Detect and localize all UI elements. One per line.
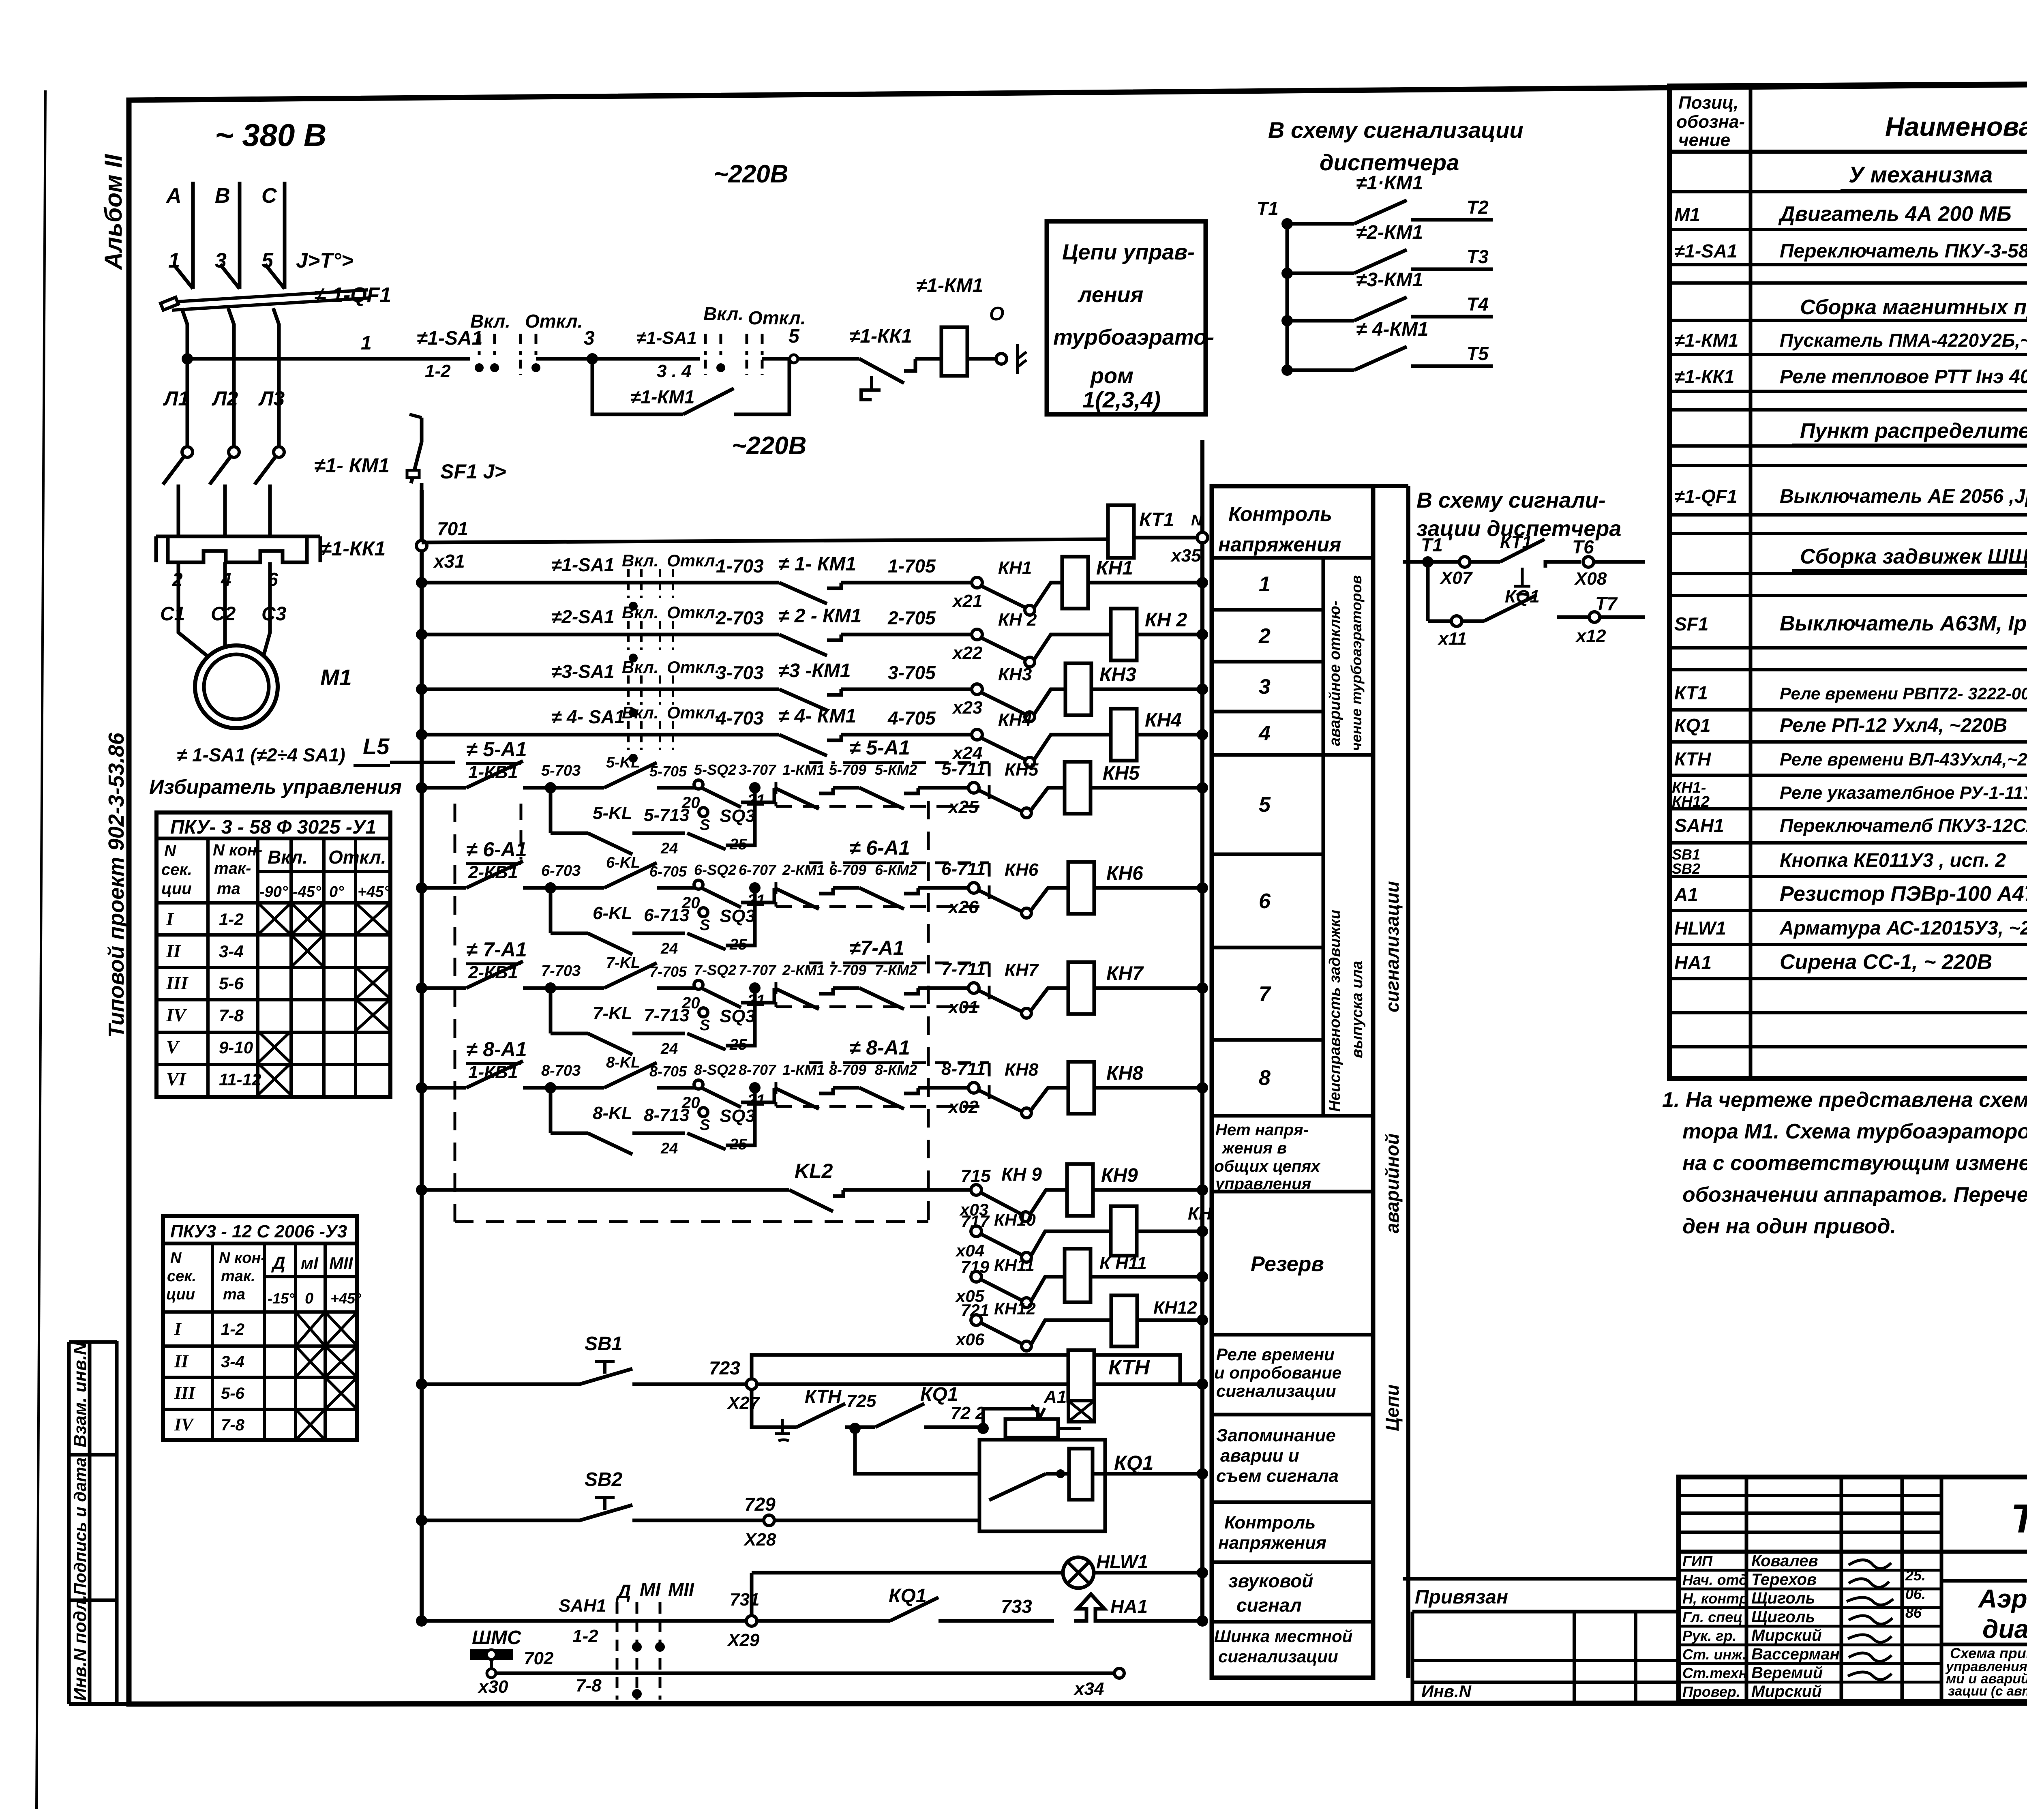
svg-text:Щиголь: Щиголь [1751,1608,1815,1626]
svg-text:ШМС: ШМС [472,1627,522,1649]
svg-text:L5: L5 [363,733,390,759]
svg-text:так.: так. [221,1268,255,1285]
svg-text:06.: 06. [1905,1586,1926,1602]
svg-text:≠1-КК1: ≠1-КК1 [849,326,912,347]
svg-text:6-703: 6-703 [541,862,581,879]
svg-text:КН3: КН3 [1099,664,1136,686]
svg-text:Неисправность задвижки: Неисправность задвижки [1326,910,1343,1112]
svg-text:Т1: Т1 [1421,534,1443,555]
svg-text:Реле времени: Реле времени [1216,1345,1335,1364]
svg-text:сигнал: сигнал [1236,1595,1302,1616]
svg-text:N: N [164,842,176,860]
svg-text:Л2: Л2 [212,387,238,410]
svg-text:6-KL: 6-KL [593,903,632,923]
svg-text:х31: х31 [433,551,465,572]
svg-text:≠1-КМ1: ≠1-КМ1 [630,386,694,407]
indicating relay coil КН8 [1068,1062,1208,1114]
label breaker 1-QF1 [314,283,391,307]
node 5 [789,326,800,363]
svg-text:2: 2 [172,569,183,590]
lamp HLW1 [1063,1551,1208,1588]
svg-text:Позиц,: Позиц, [1678,93,1739,113]
svg-text:Резерв: Резерв [1251,1252,1324,1276]
svg-text:та: та [217,880,240,898]
svg-text:3-4: 3-4 [221,1353,244,1371]
label Otkl2 [748,307,806,328]
svg-text:общих цепях: общих цепях [1214,1158,1321,1175]
indicating relay coil КН6 [1068,862,1208,914]
svg-text:≠1-SA1: ≠1-SA1 [636,328,697,348]
label L3 [258,387,285,410]
svg-text:1-703: 1-703 [716,555,764,577]
rung 1 wire [416,551,1062,615]
svg-text:С1: С1 [160,603,185,625]
wire T1-T6 [1403,532,1645,595]
svg-text:Л1: Л1 [163,387,189,410]
rung 2 wire [416,603,1111,667]
svg-text:≠ 1-SA1 (≠2÷4 SA1): ≠ 1-SA1 (≠2÷4 SA1) [177,744,345,765]
svg-text:1-705: 1-705 [888,555,936,577]
svg-text:VI: VI [166,1069,187,1089]
svg-text:С3: С3 [261,603,287,625]
svg-text:7-КМ2: 7-КМ2 [875,962,917,978]
svg-text:сигнализации: сигнализации [1216,1381,1336,1400]
svg-text:7-8: 7-8 [576,1676,602,1696]
svg-text:х35: х35 [1170,546,1201,566]
svg-text:съем сигнала: съем сигнала [1216,1466,1339,1486]
title block left extension [1403,1579,1679,1701]
svg-text:6-707: 6-707 [739,862,777,878]
svg-text:≠ 8-А1: ≠ 8-А1 [466,1038,527,1061]
svg-text:SF1 J>: SF1 J> [440,460,506,483]
dashed enclosure KV1 column [455,801,928,1222]
svg-text:Нач. отд: Нач. отд [1682,1571,1748,1588]
svg-text:731: 731 [730,1590,759,1610]
svg-text:х23: х23 [952,698,982,718]
svg-text:КН3: КН3 [998,665,1032,684]
svg-text:24: 24 [660,1040,678,1057]
right rail N wire [1200,440,1204,1621]
svg-text:≠1-SA1: ≠1-SA1 [1674,240,1738,262]
svg-text:ции: ции [161,880,192,898]
indicating relay coil KN9 [1067,1164,1208,1216]
box cepi upravleniya [1047,221,1214,414]
rung 7 wire [416,937,968,1012]
contactor KM1 main contacts [163,447,284,536]
svg-text:7-8: 7-8 [221,1416,245,1434]
document number TP 902-3-53.86 -EM [2011,1496,2027,1541]
svg-text:8-KL: 8-KL [606,1054,640,1071]
svg-text:КН 2: КН 2 [1145,609,1187,631]
indicating relay coil КН7 [1068,962,1208,1014]
contact # 4-КМ1 to Т5 [1281,319,1493,376]
svg-text:сигнализации: сигнализации [1382,881,1403,1012]
svg-text:0°: 0° [329,883,344,900]
svg-text:Вкл.: Вкл. [622,603,658,622]
svg-text:≠ 7-А1: ≠ 7-А1 [466,938,527,961]
svg-text:Нет напря-: Нет напря- [1215,1121,1309,1139]
pin 3 [215,249,227,272]
svg-text:1: 1 [361,332,372,354]
svg-text:1: 1 [1259,572,1271,596]
label phase B [215,184,230,208]
svg-text:7: 7 [1259,982,1271,1006]
svg-text:≠ 6-А1: ≠ 6-А1 [849,836,910,859]
svg-text:Сборка магнитных пускателей: Сборка магнитных пускателей [1800,296,2027,319]
bypass contact 1-KM1 [592,359,789,414]
label ~220V upper [714,160,788,188]
svg-text:2-703: 2-703 [716,607,764,628]
svg-text:Реле тепловое РТТ Iнэ 40А: Реле тепловое РТТ Iнэ 40А [1780,366,2027,388]
svg-text:диспетчера: диспетчера [1320,150,1459,175]
resistor A1 [1005,1419,1081,1438]
svg-text:25: 25 [729,1136,747,1153]
indicating relay coil КН3 [1065,663,1208,715]
label C3 [261,603,287,625]
svg-text:≠ 4- SA1: ≠ 4- SA1 [551,706,625,727]
pin 1 [168,249,180,272]
svg-text:6: 6 [268,569,278,590]
vertical label Подпись и дата [71,1458,90,1595]
svg-text:8-703: 8-703 [541,1062,581,1079]
svg-text:Д: Д [615,1581,631,1603]
svg-text:5-SQ2: 5-SQ2 [694,761,736,778]
indicating relay coil KN11 [1031,1249,1208,1302]
label 1-KK1 [320,537,386,560]
label Vkl2 [703,303,744,324]
svg-text:КН5: КН5 [1103,763,1140,784]
svg-text:МII: МII [668,1579,694,1600]
svg-text:МI: МI [640,1579,661,1600]
svg-text:25: 25 [729,836,747,853]
svg-text:Вкл.: Вкл. [470,311,510,332]
svg-text:обозначении аппаратов. Перече: обозначении аппаратов. Перечень элементо… [1682,1183,2027,1207]
svg-text:Откл.: Откл. [525,311,583,332]
svg-text:Вкл.: Вкл. [622,551,658,570]
label 1-2 [425,361,451,381]
svg-text:напряжения: напряжения [1218,1533,1326,1553]
svg-text:-90°: -90° [259,883,288,900]
svg-text:Реле указателбное РУ-1-11У3, I: Реле указателбное РУ-1-11У3, Iср 0,25А [1780,783,2027,803]
svg-text:729: 729 [744,1494,776,1515]
motor M1 [178,592,278,728]
svg-text:КН10: КН10 [994,1210,1036,1229]
svg-text:Т6: Т6 [1572,536,1594,557]
rung 7 output wire [941,959,1068,1018]
label C1 [160,603,185,625]
svg-text:3: 3 [584,328,595,349]
svg-text:Откл.: Откл. [667,703,720,722]
svg-text:7-705: 7-705 [649,963,687,980]
left margin column lines [69,1341,130,1704]
rung KT1 wire [422,539,1108,542]
svg-text:Ст.техн: Ст.техн [1682,1665,1748,1681]
rung HA1 wire [416,1585,1054,1650]
svg-text:S: S [700,1117,710,1134]
svg-text:КН 2: КН 2 [998,610,1037,630]
svg-text:чение турбоаэраторов: чение турбоаэраторов [1348,575,1365,751]
svg-text:IV: IV [166,1005,187,1025]
svg-text:~220В: ~220В [714,160,788,188]
node tap to control line [182,353,193,364]
svg-text:КQ1: КQ1 [1505,587,1540,607]
svg-text:≠1-КК1: ≠1-КК1 [1674,366,1734,387]
svg-text:X08: X08 [1574,569,1607,589]
svg-text:5-КМ2: 5-КМ2 [875,761,917,778]
svg-text:звуковой: звуковой [1228,1570,1313,1591]
svg-text:К Н11: К Н11 [1099,1253,1147,1273]
pin 6 [268,569,278,590]
sub rungs KN10-KN12 [955,1210,1036,1351]
svg-text:А: А [165,184,182,208]
svg-text:сек.: сек. [161,861,192,879]
svg-text:аварии и: аварии и [1220,1446,1299,1466]
svg-text:Терехов: Терехов [1751,1571,1817,1588]
svg-text:8-SQ2: 8-SQ2 [694,1061,736,1078]
title block [1679,1477,2027,1701]
svg-text:М1: М1 [320,665,352,690]
svg-text:С: С [261,184,277,208]
svg-text:8: 8 [1259,1066,1271,1090]
svg-text:сек.: сек. [167,1268,196,1285]
svg-text:А1: А1 [1043,1387,1067,1407]
svg-text:У механизма: У механизма [1849,162,1993,187]
svg-text:86: 86 [1905,1604,1922,1621]
svg-text:6-KL: 6-KL [606,854,640,871]
svg-text:6-713: 6-713 [644,905,690,925]
svg-text:SB2: SB2 [1672,860,1700,877]
svg-text:Т4: Т4 [1467,294,1489,315]
svg-text:Мирский: Мирский [1751,1683,1822,1700]
rung 8 gate sub-wire [551,1082,761,1157]
table PKU-3-58F3025-U1 [156,812,390,1097]
svg-text:72 2: 72 2 [951,1403,986,1423]
rung 8 output wire [941,1059,1068,1118]
svg-text:N кон-: N кон- [219,1250,266,1267]
emergency signalling circuits column [1373,486,1408,1678]
svg-text:Л3: Л3 [258,387,285,410]
svg-text:2-705: 2-705 [887,607,936,628]
svg-text:≠ 1- КМ1: ≠ 1- КМ1 [778,553,856,575]
svg-text:IV: IV [174,1415,195,1434]
svg-text:х34: х34 [1073,1679,1104,1699]
svg-text:Аэроакселатор: Аэроакселатор [1978,1584,2027,1613]
svg-text:зации (с автоматизирован.: зации (с автоматизирован. [1948,1683,2027,1698]
svg-text:В: В [215,184,230,208]
svg-text:КН1: КН1 [1096,557,1133,579]
svg-text:КТН: КТН [805,1386,842,1407]
object name Aeroakselator [1978,1584,2027,1644]
svg-text:Вкл.: Вкл. [622,703,658,722]
svg-text:ления: ления [1077,283,1143,307]
svg-text:Типовой проект 902-3-53.86: Типовой проект 902-3-53.86 [104,732,129,1038]
svg-text:7-8: 7-8 [219,1006,244,1025]
svg-text:+45°: +45° [358,883,390,900]
breaker SF1 [407,414,506,490]
svg-text:КТН: КТН [1674,748,1711,770]
svg-text:≠2-SA1: ≠2-SA1 [551,606,615,627]
dashed bracket rung 6 [776,863,989,907]
svg-text:5-6: 5-6 [219,974,244,993]
svg-text:≠1-SA1: ≠1-SA1 [551,554,615,575]
svg-text:чение: чение [1678,130,1730,150]
thermal contact KK1 [849,326,941,400]
svg-text:КН4: КН4 [1145,710,1182,731]
svg-text:J>T°>: J>T°> [296,249,354,272]
svg-text:Откл.: Откл. [667,658,720,677]
indicating relay coil КН5 [1065,762,1208,814]
svg-text:≠ 4-КМ1: ≠ 4-КМ1 [1356,319,1429,340]
svg-text:≠ 6-А1: ≠ 6-А1 [466,838,527,861]
svg-text:≠1-КМ1: ≠1-КМ1 [1674,330,1738,351]
svg-text:1. На чертеже представлена сх: 1. На чертеже представлена схема одного … [1662,1088,2027,1112]
svg-text:ПКУ3 - 12 С 2006 -У3: ПКУ3 - 12 С 2006 -У3 [170,1222,347,1241]
svg-text:А1: А1 [1674,884,1698,905]
rung 4 wire [416,703,1111,767]
svg-text:X29: X29 [726,1630,760,1650]
svg-text:SQ3: SQ3 [720,906,755,926]
svg-text:Пункт распределительный 1ПР: Пункт распределительный 1ПР [1800,419,2027,443]
pin 5 [261,249,274,272]
switch SA1 contact 1-2 [475,334,592,375]
rung 7 gate sub-wire [551,982,761,1057]
svg-text:≠ 5-А1: ≠ 5-А1 [849,736,910,759]
svg-text:КН5: КН5 [1005,760,1039,780]
label phase A [165,184,182,208]
indicating relay coil KN10 [1031,1204,1237,1256]
svg-text:КQ1: КQ1 [889,1585,927,1607]
svg-text:725: 725 [846,1391,876,1411]
svg-text:Арматура АС-12015У3, ~220В: Арматура АС-12015У3, ~220В [1779,918,2027,939]
svg-text:9-10: 9-10 [219,1038,253,1057]
svg-text:Вкл.: Вкл. [622,658,658,677]
svg-text:Шинка местной: Шинка местной [1214,1627,1352,1646]
contact #3-КМ1 to Т4 [1281,269,1493,326]
svg-text:Выключатель А63М, Iр 2А: Выключатель А63М, Iр 2А [1780,612,2027,635]
svg-text:N: N [1191,512,1203,529]
svg-text:≠ 8-А1: ≠ 8-А1 [849,1036,910,1059]
svg-text:4: 4 [1258,722,1271,745]
indicating relay coil КН4 [1111,709,1208,761]
svg-text:Вкл.: Вкл. [268,847,308,868]
svg-text:Двигатель 4А 200 МБ: Двигатель 4А 200 МБ [1778,202,2012,226]
svg-text:HLW1: HLW1 [1096,1551,1148,1572]
svg-text:3 . 4: 3 . 4 [657,361,692,381]
svg-text:ТП 902-3-53.86: ТП 902-3-53.86 [2011,1496,2027,1541]
svg-text:+45°: +45° [330,1290,361,1307]
svg-text:Кнопка КЕ011У3 , исп. 2: Кнопка КЕ011У3 , исп. 2 [1780,850,2006,871]
svg-text:х11: х11 [1438,629,1467,649]
svg-text:х12: х12 [1575,626,1606,646]
label ~380V busbar [215,117,326,153]
svg-text:ром: ром [1090,364,1133,388]
label Otkl [525,311,583,332]
label Vkl [470,311,510,332]
svg-text:4-703: 4-703 [716,707,764,729]
svg-text:25: 25 [729,936,747,953]
svg-text:КН6: КН6 [1005,860,1039,880]
svg-text:ции: ции [166,1286,195,1303]
title to dispatcher signalling top [1268,117,1523,175]
label ~220V rail [732,432,806,460]
svg-text:≠1·КМ1: ≠1·КМ1 [1356,172,1423,194]
svg-text:Пускатель ПМА-4220У2Б,~220В,2з: Пускатель ПМА-4220У2Б,~220В,2з,2р [1780,330,2027,351]
parts list rows [1672,162,2027,988]
title to dispatcher signalling lower [1416,488,1621,541]
svg-text:НА1: НА1 [1674,952,1712,973]
svg-text:О: О [989,303,1004,325]
page edge line [36,90,45,1809]
indicating relay coil KN12 [1031,1295,1208,1346]
svg-text:-15°: -15° [268,1290,295,1307]
svg-text:7-SQ2: 7-SQ2 [694,962,736,978]
svg-text:аварийной: аварийной [1382,1133,1403,1233]
note text [1662,1088,2027,1238]
rung 5 output wire [941,759,1065,818]
label 3.4 [657,361,692,381]
time relay coil KTN [1068,1350,1208,1422]
svg-text:8-705: 8-705 [649,1063,687,1080]
signature rows [1682,1552,1926,1700]
contactor coil KM1 [916,275,995,376]
svg-text:≠ 5-А1: ≠ 5-А1 [466,738,527,761]
svg-text:Т1: Т1 [1257,198,1279,219]
indicating relay coil КН1 [1062,557,1208,609]
vertical label Взам. инв.N [70,1342,90,1447]
svg-text:5-6: 5-6 [221,1385,245,1402]
switch SA1 contact 3-4 [592,334,795,375]
svg-text:24: 24 [660,1140,678,1157]
svg-text:и опробование: и опробование [1214,1363,1341,1382]
svg-text:SB2: SB2 [585,1469,623,1490]
wire 702 local signalling [496,1668,1124,1699]
svg-text:Переключатель ПКУ-3-58Ф3025-У2: Переключатель ПКУ-3-58Ф3025-У2 [1780,240,2027,262]
svg-text:6-SQ2: 6-SQ2 [694,862,736,878]
node 3 [584,328,598,364]
svg-text:3-705: 3-705 [888,662,936,683]
svg-text:Откл.: Откл. [667,551,720,570]
svg-text:8-KL: 8-KL [593,1103,632,1123]
svg-text:SB1: SB1 [585,1333,622,1355]
svg-text:SQ3: SQ3 [720,1006,755,1026]
svg-text:5: 5 [789,326,800,347]
svg-text:715: 715 [961,1166,991,1186]
svg-text:3: 3 [1259,675,1271,699]
terminal N x35 [1170,512,1208,566]
svg-text:7-KL: 7-KL [606,954,640,971]
svg-text:S: S [700,917,710,934]
rung 5 gate sub-wire [551,782,761,857]
svg-text:24: 24 [660,840,678,857]
svg-text:КН12: КН12 [1672,793,1710,810]
svg-text:В схему сигнали-: В схему сигнали- [1416,488,1606,512]
svg-text:КТН: КТН [1108,1356,1150,1379]
svg-text:Щиголь: Щиголь [1751,1589,1815,1607]
svg-text:Т7: Т7 [1595,593,1618,614]
rung KL2 KN9 wire [416,1160,1067,1222]
label M1 [320,665,352,690]
bus T1 vertical [1286,224,1289,370]
svg-text:мI: мI [301,1254,319,1273]
signal column table [1212,486,1373,1678]
svg-text:так-: так- [214,860,251,877]
svg-text:7-703: 7-703 [541,963,581,980]
svg-text:Привязан: Привязан [1415,1586,1508,1608]
svg-text:Реле РП-12 Ухл4, ~220В: Реле РП-12 Ухл4, ~220В [1780,715,2007,736]
svg-text:SQ3: SQ3 [720,806,755,826]
svg-text:V: V [166,1037,180,1057]
svg-text:≠ 4- КМ1: ≠ 4- КМ1 [778,705,856,727]
